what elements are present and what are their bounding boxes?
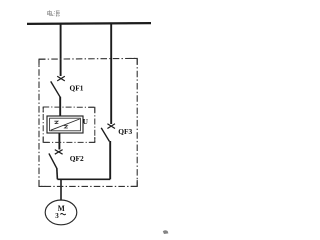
svg-text:QF1: QF1 [70, 83, 84, 92]
motor M 3~ [45, 200, 77, 225]
soft starter unit boundary bottom edge [43, 141, 95, 143]
svg-text:M: M [58, 204, 65, 213]
wire: QF3 down to bottom junction [109, 141, 111, 179]
enclosure boundary right edge [136, 58, 138, 186]
wire: QF2 to bottom junction [56, 168, 59, 180]
soft starter unit boundary right edge [94, 107, 96, 142]
soft starter unit boundary left edge [42, 107, 44, 142]
wire: bus to QF1 (left branch drop) [60, 23, 62, 76]
wire: junction to motor [60, 179, 62, 200]
label 电源 (supply) [48, 10, 60, 16]
svg-text:QF3: QF3 [118, 127, 132, 136]
svg-text:QF2: QF2 [70, 154, 84, 163]
soft starter unit boundary (inner dash-dot) top edge [43, 106, 95, 108]
power bus (supply busbar) [27, 22, 151, 25]
svg-text:U: U [83, 118, 89, 126]
wire: QF1 to soft starter U [59, 97, 61, 117]
wire: bottom joining line (junction of both branches) [57, 178, 110, 180]
wire: bus to QF3 (right bypass drop) [110, 23, 112, 124]
wire: U to QF2 [58, 133, 60, 150]
enclosure boundary bottom edge [39, 185, 137, 187]
breaker QF3 [101, 124, 115, 142]
enclosure boundary corner ticks [39, 58, 137, 186]
enclosure boundary (outer dash-dot cabinet) top edge [39, 57, 137, 60]
breaker QF2 [49, 150, 63, 168]
svg-text:3: 3 [55, 212, 59, 220]
enclosure boundary left edge [38, 59, 40, 186]
soft starter unit boundary corner ticks [43, 107, 95, 142]
breaker QF1 [51, 76, 65, 97]
soft starter U (box with diagonal) [47, 116, 83, 133]
page smudge mark bottom-right [163, 230, 169, 234]
